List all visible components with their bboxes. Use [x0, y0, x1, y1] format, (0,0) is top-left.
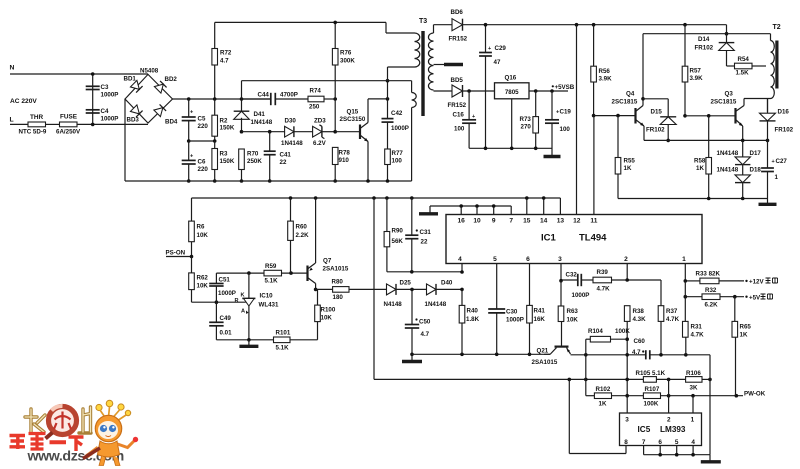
svg-text:1000P: 1000P	[391, 125, 409, 132]
svg-text:R104: R104	[588, 328, 603, 335]
svg-text:R54: R54	[738, 56, 750, 63]
node R58 bottom	[707, 197, 711, 201]
node base/R78	[333, 130, 337, 134]
svg-text:5: 5	[493, 256, 497, 263]
wire R32 row	[685, 296, 702, 298]
svg-text:10: 10	[473, 218, 481, 225]
node TL431 K	[247, 271, 251, 275]
wire Q4 collector	[642, 34, 644, 106]
svg-text:BD2: BD2	[165, 76, 178, 83]
svg-text:R39: R39	[597, 269, 609, 276]
svg-text:9: 9	[492, 218, 496, 225]
svg-text:C60: C60	[634, 338, 646, 345]
fuse FUSE 6A/250V	[60, 122, 78, 127]
node C50 bottom	[410, 353, 414, 357]
resistor R58 1K	[708, 116, 710, 158]
svg-text:4.7K: 4.7K	[691, 332, 705, 339]
svg-text:6A/250V: 6A/250V	[56, 129, 81, 136]
node pin4 row	[460, 288, 464, 292]
svg-text:1K: 1K	[624, 165, 632, 172]
diode D30 1N4148	[285, 126, 294, 137]
node TL431 gnd	[247, 338, 251, 342]
resistor R104 100K	[585, 339, 587, 355]
node R78 bottom	[333, 179, 337, 183]
transformer T2 core	[775, 41, 778, 89]
svg-text:2SC3150: 2SC3150	[340, 116, 366, 123]
resistor R76 300K	[334, 22, 336, 48]
wire TL431 ref row	[192, 301, 246, 303]
node C6 bottom	[187, 179, 191, 183]
node bus C31	[410, 196, 414, 200]
transformer T3 center tap ground	[434, 64, 447, 66]
wire R65 down	[735, 337, 737, 396]
wire fb mid bus	[571, 354, 646, 356]
resistor R77 100	[385, 149, 391, 165]
svg-text:R55: R55	[624, 158, 636, 165]
svg-text:10K: 10K	[567, 317, 579, 324]
net label +5V out	[745, 296, 747, 298]
svg-text:+: +	[488, 46, 491, 52]
resistor R63 10K	[560, 281, 562, 306]
capacitor C32 1000P	[577, 274, 579, 286]
svg-text:FUSE: FUSE	[60, 114, 78, 121]
diode D25 N4148	[387, 284, 397, 295]
wire D15 top link	[643, 98, 668, 100]
node R58 top	[707, 114, 711, 118]
wire Q4 base	[594, 115, 635, 117]
node pin1 R32	[684, 295, 688, 299]
node D18 bottom	[741, 197, 745, 201]
node bridge+ / C5	[187, 97, 191, 101]
svg-text:15: 15	[523, 218, 531, 225]
svg-text:250K: 250K	[247, 158, 262, 165]
ground TL431	[248, 340, 250, 346]
svg-text:4: 4	[691, 439, 695, 446]
svg-text:1.8K: 1.8K	[466, 316, 480, 323]
node Q3 emitter bus	[741, 139, 745, 143]
node R3 bottom	[213, 179, 217, 183]
node C29 top	[484, 23, 488, 27]
wire bridge positive output	[173, 98, 272, 100]
resistor R55 1K	[617, 116, 619, 158]
wire aux feedback link	[242, 80, 412, 82]
wire T2 bottom down	[767, 99, 769, 112]
ground driver return	[767, 199, 769, 204]
resistor R105 5.1K	[643, 377, 656, 383]
transformer T2 winding	[770, 34, 772, 41]
svg-text:22: 22	[421, 239, 428, 246]
node C41 top	[268, 130, 272, 134]
node C50 top	[410, 288, 414, 292]
svg-text:5: 5	[675, 439, 679, 446]
svg-text:FR102: FR102	[695, 45, 714, 52]
svg-text:R73: R73	[520, 116, 532, 123]
resistor R90 56K	[386, 198, 388, 232]
diode BD5 FR152	[452, 85, 463, 97]
node R73 top	[534, 89, 538, 93]
svg-text:3K: 3K	[690, 385, 698, 392]
svg-text:+: +	[472, 114, 475, 120]
node bus R90	[385, 196, 389, 200]
svg-text:FR152: FR152	[449, 36, 468, 43]
svg-text:D17: D17	[750, 150, 762, 157]
svg-text:C30: C30	[506, 309, 518, 316]
svg-text:R6: R6	[197, 224, 205, 231]
svg-text:10K: 10K	[321, 315, 333, 322]
svg-text:C6: C6	[198, 159, 206, 166]
svg-text:1: 1	[691, 417, 695, 424]
node Q15 collector top	[386, 97, 390, 101]
wire gnd pins bus	[430, 205, 511, 207]
svg-text:K: K	[241, 293, 245, 299]
svg-text:R106: R106	[686, 370, 701, 377]
svg-text:N4148: N4148	[384, 301, 403, 308]
resistor R62 10K	[191, 257, 193, 273]
node R65 top	[733, 295, 737, 299]
svg-text:IC1: IC1	[541, 233, 557, 244]
svg-text:2: 2	[667, 417, 671, 424]
node pin1 R33	[684, 279, 688, 283]
wire Q7 collector down	[315, 284, 317, 290]
svg-text:7805: 7805	[505, 89, 519, 96]
diode BD3	[130, 105, 142, 117]
node pin3	[559, 279, 563, 283]
resistor R74 250	[275, 98, 308, 100]
svg-text:C51: C51	[219, 277, 231, 284]
svg-text:R32: R32	[705, 287, 717, 294]
wire dead-time bus	[412, 353, 550, 355]
wire R80 to D25	[349, 288, 387, 290]
transformer T3 core	[421, 31, 424, 116]
svg-text:22: 22	[280, 159, 287, 166]
node R41 bottom	[528, 353, 532, 357]
svg-text:C4: C4	[101, 108, 109, 115]
node pin2 mid	[625, 353, 629, 357]
svg-text:T2: T2	[773, 24, 781, 31]
svg-text:10K: 10K	[197, 232, 209, 239]
diode D18 1N4148	[742, 165, 744, 176]
svg-text:+5V: +5V	[749, 294, 761, 301]
svg-text:LM393: LM393	[660, 425, 686, 434]
node Q7/R80	[314, 288, 318, 292]
svg-text:N: N	[10, 65, 15, 72]
diode BD1	[130, 80, 142, 92]
thermistor THR NTC 5D-9	[28, 122, 46, 127]
node Q15 emitter bottom	[366, 179, 370, 183]
wire Q21 left	[544, 353, 550, 355]
wire L line segment 1	[10, 123, 28, 125]
node C41 bottom	[268, 179, 272, 183]
svg-text:C32: C32	[566, 272, 578, 279]
transformer T3 secondary winding	[428, 33, 433, 90]
node R59/R60	[289, 271, 293, 275]
svg-text:R101: R101	[276, 330, 291, 337]
svg-text:Q21: Q21	[537, 348, 549, 355]
svg-text:47: 47	[494, 59, 501, 66]
node loop/vert	[568, 378, 572, 382]
resistor R6 10K	[191, 198, 193, 221]
diode D14 FR102	[726, 34, 728, 43]
resistor R80 180	[316, 288, 333, 290]
svg-text:100: 100	[560, 126, 571, 133]
wire mid divider link	[189, 140, 215, 142]
svg-text:3.9K: 3.9K	[599, 76, 613, 83]
wire R33 right	[719, 280, 744, 282]
svg-text:150K: 150K	[220, 125, 235, 132]
svg-text:T3: T3	[419, 18, 427, 25]
svg-text:R41: R41	[534, 308, 546, 315]
wire Q7 emitter up	[315, 198, 317, 263]
svg-text:R65: R65	[740, 324, 752, 331]
capacitor C3 1000P	[86, 85, 100, 87]
svg-text:4.7K: 4.7K	[597, 286, 611, 293]
svg-text:D40: D40	[441, 280, 453, 287]
svg-text:R58: R58	[694, 158, 706, 165]
svg-text:D30: D30	[285, 118, 297, 125]
capacitor C44 4700P	[242, 98, 271, 100]
wire Q4 emitter down	[643, 126, 645, 140]
node R104 mid	[584, 353, 588, 357]
wire bridge negative down	[124, 99, 126, 181]
svg-text:BD3: BD3	[127, 117, 140, 124]
capacitor C27 1	[767, 140, 769, 167]
capacitor C60 4.7	[645, 350, 647, 359]
svg-text:R3: R3	[220, 151, 228, 158]
svg-text:Q16: Q16	[505, 75, 517, 82]
wire Q3 collector	[743, 99, 745, 106]
svg-text:Q4: Q4	[626, 91, 635, 98]
svg-text:C5: C5	[198, 116, 206, 123]
svg-text:220: 220	[198, 123, 209, 130]
wire R102-R107	[612, 395, 644, 397]
node R77 bottom	[386, 179, 390, 183]
svg-text:R78: R78	[339, 150, 351, 157]
node bus p15	[525, 196, 529, 200]
svg-text:1000P: 1000P	[101, 116, 119, 123]
wire base row 2	[294, 131, 313, 133]
wire primary bottom	[388, 66, 415, 68]
comparator IC5 LM393 box	[620, 413, 702, 446]
node C31 bottom	[410, 270, 414, 274]
node 7805 gnd	[510, 147, 514, 151]
transistor Q4 2SC1815	[634, 108, 636, 124]
svg-text:4.3K: 4.3K	[633, 316, 647, 323]
wire Q3 emitter down	[742, 126, 744, 140]
wire PW-OK row	[661, 395, 744, 397]
svg-text:R38: R38	[633, 308, 645, 315]
svg-text:R33 82K: R33 82K	[696, 271, 721, 278]
capacitor C5 220	[188, 99, 190, 117]
node C5-C6 mid	[187, 139, 191, 143]
svg-text:BD5: BD5	[451, 77, 464, 84]
wire R90 bottom row	[387, 271, 462, 273]
wire top rail left	[215, 21, 386, 23]
watermark logo	[10, 400, 139, 465]
node C19 top	[550, 89, 554, 93]
svg-text:2.2K: 2.2K	[296, 232, 310, 239]
svg-text:12: 12	[573, 218, 581, 225]
svg-text:R72: R72	[220, 50, 232, 57]
svg-text:8: 8	[624, 439, 628, 446]
resistor R59 5.1K	[264, 270, 282, 276]
wire T2 top feed	[643, 33, 771, 35]
svg-text:6: 6	[526, 256, 530, 263]
node pin2 cross	[667, 394, 671, 398]
wire R104/R102 riser	[585, 355, 587, 396]
node C30 bottom	[495, 353, 499, 357]
resistor R100 10K	[317, 322, 319, 340]
wire pin2 chain	[626, 321, 628, 395]
resistor R102 1K	[594, 393, 611, 399]
svg-text:FR152: FR152	[448, 102, 467, 109]
wire R102 row	[586, 395, 595, 397]
svg-text:13: 13	[557, 218, 565, 225]
wire driver emitter bus	[618, 198, 768, 200]
transistor Q21 2SA1015	[555, 346, 569, 348]
svg-text:2: 2	[624, 256, 628, 263]
wire fb row	[216, 272, 264, 274]
svg-text:R105 5.1K: R105 5.1K	[636, 370, 666, 377]
capacitor C6 220	[188, 141, 190, 160]
svg-text:+: +	[772, 159, 775, 165]
wire primary return	[125, 180, 412, 182]
transformer T3 primary winding	[415, 33, 420, 67]
svg-text:5.1K: 5.1K	[276, 345, 290, 352]
resistor R60 2.2K	[290, 198, 292, 221]
node pin3 stub	[625, 394, 629, 398]
svg-text:16: 16	[458, 218, 466, 225]
wire secondary bottom out	[434, 90, 453, 92]
capacitor C16 100	[468, 91, 470, 120]
wire R105-R106	[656, 378, 685, 380]
capacitor C31 22	[411, 198, 413, 235]
svg-text:N5408: N5408	[140, 68, 159, 75]
transistor Q15 2SC3150	[359, 125, 361, 140]
svg-text:4.7: 4.7	[632, 349, 641, 356]
wire C60 right	[650, 354, 710, 356]
svg-text:1: 1	[775, 174, 779, 181]
svg-text:R57: R57	[690, 68, 702, 75]
node R74/R76	[333, 97, 337, 101]
net label +5VSB	[552, 85, 554, 87]
resistor R101 5.1K	[274, 337, 291, 343]
node pin2 lower	[625, 378, 629, 382]
svg-text:1K: 1K	[740, 332, 748, 339]
node R72/R2	[213, 97, 217, 101]
diode D41 1N4148	[241, 99, 243, 111]
node pin2 stub top	[667, 378, 671, 382]
svg-text:R76: R76	[340, 50, 352, 57]
wire pin8 loop	[569, 453, 626, 455]
svg-text:R: R	[235, 298, 239, 304]
node bus p14	[542, 196, 546, 200]
svg-text:4.7K: 4.7K	[666, 316, 680, 323]
diode D17 1N4148	[742, 140, 744, 157]
svg-text:7: 7	[509, 218, 513, 225]
wire 7805 ground pin	[511, 99, 513, 149]
resistor R3 150K	[212, 149, 218, 170]
resistor R73 270	[535, 91, 537, 117]
svg-text:180: 180	[333, 294, 344, 301]
svg-text:ZD3: ZD3	[314, 118, 326, 125]
ground TL494 pins	[429, 206, 431, 213]
node right loop	[708, 378, 712, 382]
svg-text:R60: R60	[296, 224, 308, 231]
wire standby ground bus	[469, 147, 552, 149]
svg-text:5.1K: 5.1K	[265, 278, 279, 285]
node N junction	[91, 72, 95, 76]
svg-text:4.7: 4.7	[421, 331, 430, 338]
node Q4 collector	[641, 97, 645, 101]
wire D25-D40	[397, 288, 427, 290]
resistor R38 4.3K	[624, 306, 630, 322]
svg-text:6.2V: 6.2V	[313, 140, 327, 147]
node bus R60	[289, 196, 293, 200]
node R104 right	[625, 337, 629, 341]
node R56 bottom	[592, 114, 596, 118]
svg-text:D41: D41	[254, 111, 266, 118]
resistor R72 4.7	[214, 22, 216, 48]
resistor R107 100K	[643, 393, 660, 399]
wire Q15 collector	[367, 99, 369, 123]
resistor R54 1.5K	[727, 65, 735, 67]
svg-text:0.01: 0.01	[220, 330, 233, 337]
svg-text:D25: D25	[400, 280, 412, 287]
node top rail R76	[333, 21, 337, 25]
transformer T3 aux winding	[411, 81, 413, 93]
capacitor C4 1000P	[86, 109, 100, 111]
node L junction	[91, 123, 95, 127]
capacitor C51 1000P	[215, 273, 217, 283]
svg-text:R59: R59	[265, 263, 277, 270]
wire BD5 to 7805	[463, 90, 495, 92]
svg-text:16K: 16K	[534, 316, 546, 323]
node pin2/R38	[625, 278, 629, 282]
svg-text:A: A	[241, 309, 245, 315]
svg-text:BD6: BD6	[451, 9, 464, 16]
wire R106 right	[702, 378, 710, 380]
wire L line segment 2	[46, 123, 60, 125]
svg-text:1: 1	[682, 256, 686, 263]
svg-text:2SC1815: 2SC1815	[612, 99, 638, 106]
svg-text:R62: R62	[197, 275, 209, 282]
svg-text:D15: D15	[651, 109, 663, 116]
diode D16 FR102	[767, 99, 769, 114]
node pin4 upper	[460, 270, 464, 274]
wire Q15 emitter	[367, 142, 369, 182]
svg-text:IC10: IC10	[260, 293, 274, 300]
svg-text:C49: C49	[220, 315, 232, 322]
svg-text:1N4148: 1N4148	[425, 301, 447, 308]
svg-text:BD4: BD4	[165, 119, 178, 126]
node rail pin12	[575, 23, 579, 27]
wire base to Q15	[335, 131, 360, 133]
svg-text:150K: 150K	[220, 158, 235, 165]
svg-text:R107: R107	[645, 386, 660, 393]
node D15 bottom	[666, 139, 670, 143]
svg-text:R70: R70	[247, 151, 259, 158]
svg-text:C31: C31	[420, 229, 432, 236]
shunt reg IC10 WL431	[248, 273, 250, 298]
svg-text:D16: D16	[778, 109, 790, 116]
svg-text:WL431: WL431	[259, 302, 280, 309]
capacitor C42 1000P	[387, 81, 389, 119]
diode BD6 FR152	[452, 19, 463, 31]
node C42/aux junction	[386, 79, 390, 83]
svg-text:220: 220	[198, 166, 209, 173]
svg-text:11: 11	[590, 218, 597, 225]
svg-text:R74: R74	[310, 88, 322, 95]
